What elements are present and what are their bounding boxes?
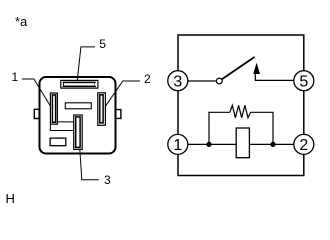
- terminal slot 1 (left vertical): [50, 93, 57, 124]
- switch pivot contact: [216, 78, 222, 84]
- svg-text:3: 3: [104, 173, 111, 187]
- wire: arrow stem to terminal 5: [255, 74, 293, 81]
- wire: terminal 1 to coil: [188, 143, 236, 145]
- wire: coil to terminal 2: [249, 143, 293, 145]
- terminal 3 circle: [168, 71, 188, 91]
- schematic box: [178, 35, 304, 176]
- keying rib below slot 1: [50, 124, 73, 130]
- switch blade: [222, 57, 255, 79]
- right lock tab: [116, 110, 121, 119]
- relay connector body: [40, 77, 116, 154]
- leader line to slot 1: [22, 79, 51, 106]
- switch arrow: [253, 63, 260, 74]
- centre cavity rectangle: [65, 103, 91, 109]
- terminal slot 2 (right vertical): [98, 93, 106, 126]
- terminal slot 3 (center vertical): [74, 115, 83, 149]
- terminal 1 circle: [168, 134, 188, 154]
- resistor zigzag: [230, 105, 251, 117]
- wire: terminal 3 to switch pivot: [188, 80, 217, 82]
- left lock tab: [34, 109, 39, 118]
- resistor branch wires: [209, 112, 273, 143]
- relay coil: [236, 128, 249, 158]
- svg-text:2: 2: [299, 137, 308, 154]
- rib line between slot 1 and slot 3: [57, 121, 73, 123]
- svg-text:H: H: [6, 191, 15, 206]
- svg-text:3: 3: [173, 73, 182, 90]
- junction node right: [270, 142, 275, 147]
- svg-text:*a: *a: [15, 14, 28, 29]
- svg-text:2: 2: [144, 72, 151, 86]
- leader line to slot 2: [105, 81, 140, 106]
- svg-text:5: 5: [99, 37, 106, 51]
- terminal slot 5 (top horizontal): [61, 80, 98, 88]
- terminal 5 circle: [294, 71, 314, 91]
- bottom-left cavity rectangle: [50, 138, 66, 146]
- svg-text:1: 1: [173, 137, 182, 154]
- svg-text:5: 5: [299, 73, 308, 90]
- terminal 2 circle: [294, 134, 314, 154]
- svg-text:1: 1: [12, 70, 19, 84]
- leader line to slot 5: [77, 47, 95, 81]
- leader line to slot 3: [80, 149, 99, 179]
- junction node left: [206, 142, 211, 147]
